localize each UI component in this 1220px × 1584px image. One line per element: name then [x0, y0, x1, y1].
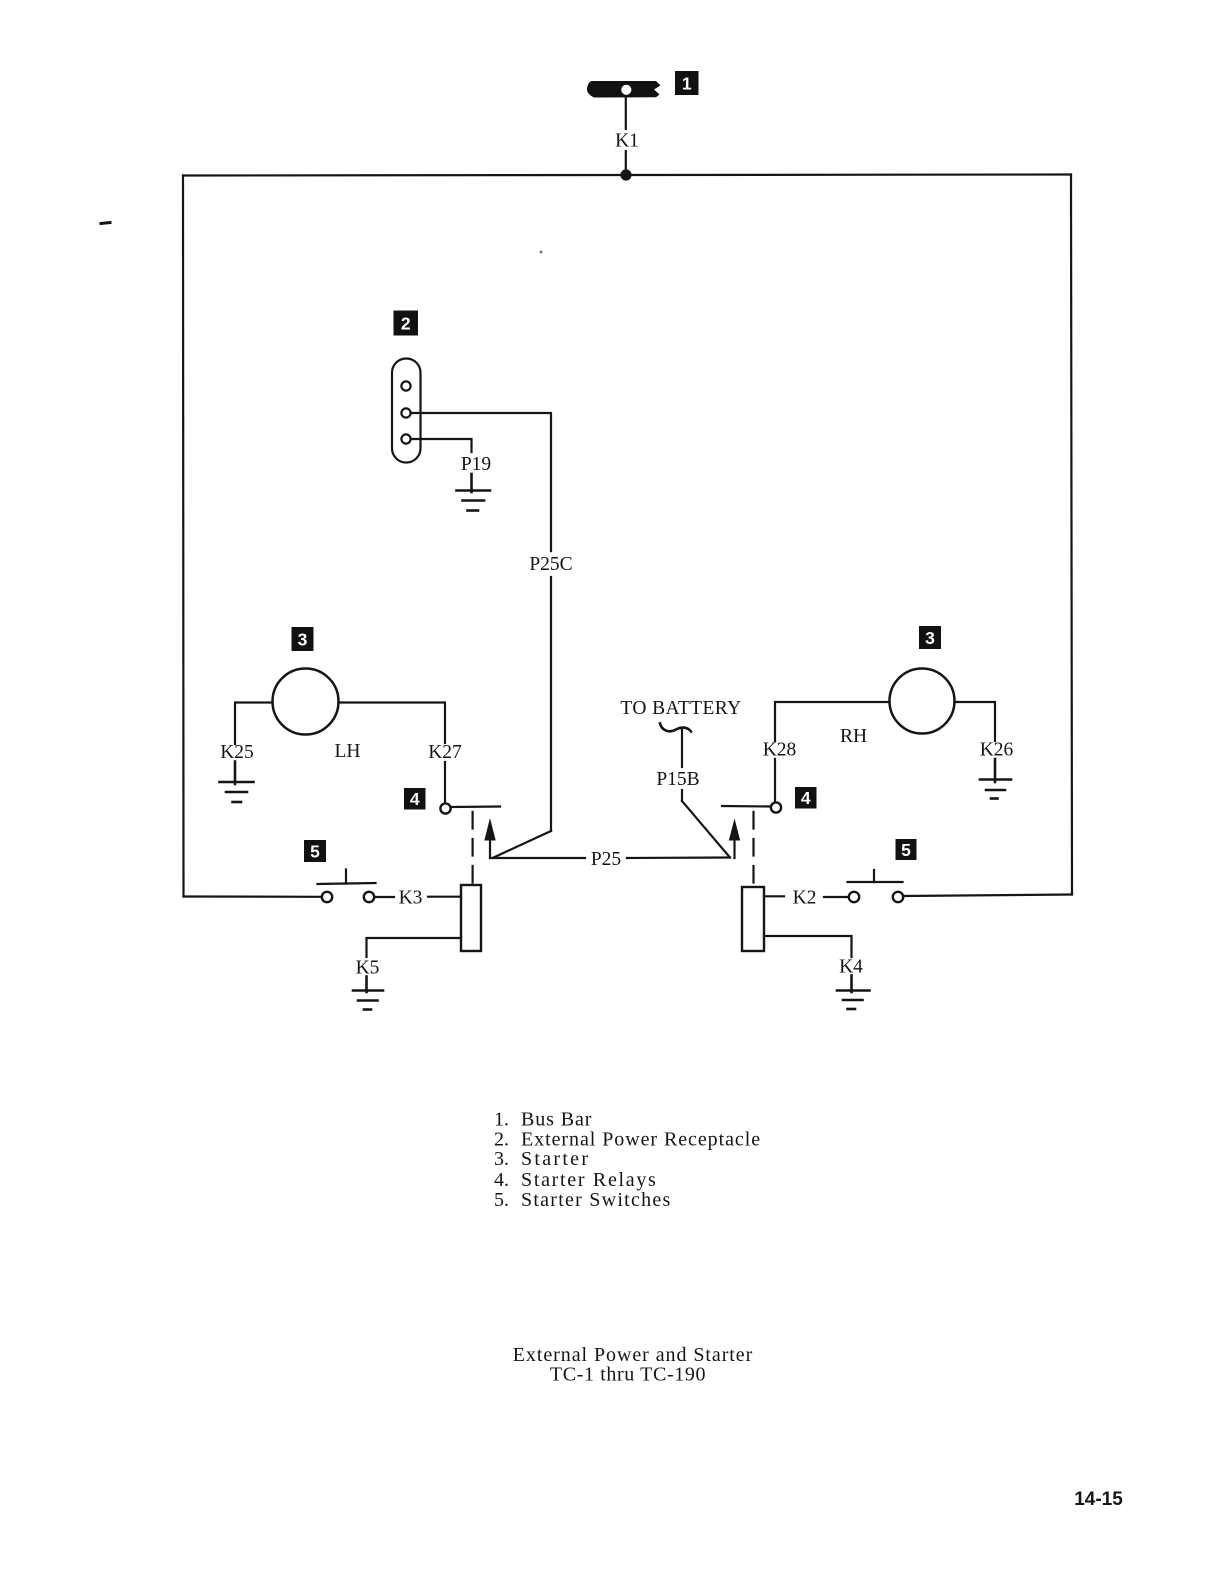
wire relay LH to K5 — [367, 938, 462, 957]
wire bottom-left to switch — [184, 895, 323, 897]
starter RH — [890, 669, 955, 734]
svg-text:P25: P25 — [591, 849, 621, 870]
svg-text:K2: K2 — [793, 888, 817, 909]
pushbutton RH — [848, 870, 903, 882]
svg-text:K27: K27 — [428, 742, 462, 763]
ground K26 — [980, 759, 1011, 799]
relay box LH — [461, 885, 481, 951]
bus bar terminal hole — [621, 85, 631, 95]
svg-text:4: 4 — [801, 788, 811, 808]
wire P25C diagonal to P25 — [494, 831, 552, 858]
svg-text:Starter Relays: Starter Relays — [521, 1169, 658, 1191]
svg-text:4: 4 — [410, 789, 420, 809]
junction dot K1/bus — [620, 169, 631, 180]
svg-text:K1: K1 — [615, 131, 639, 152]
index box 5 RH — [896, 839, 917, 860]
switch contact RH a — [849, 892, 859, 902]
pushbutton LH — [318, 870, 376, 885]
bus bar 1 — [587, 81, 661, 98]
index box 3 RH — [919, 626, 941, 649]
switch contact RH b — [893, 892, 903, 902]
wire relay box to K2 — [764, 895, 784, 897]
relay coil link LH (dashed) — [472, 812, 474, 884]
external power receptacle body — [392, 359, 421, 463]
svg-text:3: 3 — [925, 628, 935, 648]
index box 1 — [675, 71, 699, 95]
wire K1 upper — [625, 98, 627, 129]
wire K3 to relay box — [428, 896, 461, 898]
svg-text:3.: 3. — [494, 1148, 509, 1170]
wire bus right — [1071, 175, 1072, 895]
svg-text:Starter: Starter — [521, 1148, 590, 1170]
switch contact LH a — [322, 892, 332, 902]
svg-text:1.: 1. — [494, 1109, 509, 1131]
wire starter LH to K25 — [235, 703, 273, 745]
index box 4 RH — [795, 787, 817, 809]
wire K1 lower — [625, 151, 627, 175]
wire P15B lower — [681, 790, 683, 801]
wire switch to K3 — [375, 896, 394, 898]
relay contact circle LH — [440, 803, 450, 813]
wire bus top — [183, 175, 1071, 176]
svg-text:2.: 2. — [494, 1128, 509, 1150]
arrow P25 left — [484, 818, 495, 858]
svg-text:5.: 5. — [494, 1189, 509, 1211]
svg-text:Bus Bar: Bus Bar — [521, 1109, 592, 1131]
wire P25C lower — [550, 577, 552, 831]
wire K28 lower — [774, 759, 776, 802]
ground K5 — [353, 977, 383, 1010]
svg-text:K28: K28 — [763, 740, 797, 761]
svg-text:K25: K25 — [220, 742, 254, 763]
wire receptacle middle pin to P25C — [411, 413, 551, 551]
switch contact LH b — [364, 892, 374, 902]
wire P15B diagonal — [682, 801, 730, 858]
index box 2 — [394, 311, 419, 336]
svg-text:4.: 4. — [494, 1169, 509, 1191]
ground P19 — [457, 474, 491, 511]
svg-text:2: 2 — [401, 314, 411, 334]
wire K27 lower — [444, 762, 446, 803]
wire relay RH to K4 — [764, 936, 852, 957]
scan speck — [540, 251, 543, 254]
legend list — [494, 1109, 761, 1212]
wire bus left — [182, 176, 185, 897]
relay coil link RH (dashed) — [752, 812, 754, 886]
index box 4 LH — [404, 788, 426, 810]
svg-text:Starter Switches: Starter Switches — [521, 1189, 672, 1211]
ground K4 — [837, 976, 870, 1010]
wire starter RH to K26 — [955, 702, 996, 741]
index box 5 LH — [304, 840, 326, 862]
relay arm LH — [451, 805, 500, 808]
svg-text:TO BATTERY: TO BATTERY — [620, 698, 741, 719]
svg-text:1: 1 — [682, 73, 692, 93]
receptacle pin bottom — [401, 434, 410, 443]
wire starter RH to K28 upper — [775, 702, 890, 741]
svg-text:External Power Receptacle: External Power Receptacle — [521, 1128, 761, 1150]
wire bottom-right to switch — [903, 895, 1072, 897]
relay arm RH — [722, 805, 771, 808]
wire P25 left segment — [490, 857, 585, 859]
svg-text:LH: LH — [335, 741, 361, 762]
svg-text:14-15: 14-15 — [1074, 1489, 1123, 1510]
svg-text:5: 5 — [901, 840, 911, 860]
relay contact circle RH — [771, 802, 781, 812]
wire P15B upper — [681, 729, 683, 767]
svg-text:3: 3 — [298, 629, 308, 649]
svg-text:TC-1 thru TC-190: TC-1 thru TC-190 — [550, 1364, 706, 1386]
svg-text:P19: P19 — [461, 454, 491, 475]
svg-text:5: 5 — [310, 841, 320, 861]
receptacle pin top — [401, 381, 410, 390]
starter LH — [273, 669, 339, 735]
relay box RH — [742, 887, 764, 951]
arrow P25 right — [729, 819, 740, 859]
wire K2 to switch — [824, 896, 849, 898]
wire P25 right segment — [627, 856, 730, 859]
svg-text:K3: K3 — [399, 888, 423, 909]
wire receptacle bottom pin to P19 — [411, 439, 472, 452]
ground K25 — [220, 762, 254, 803]
svg-text:RH: RH — [840, 726, 867, 747]
wire starter LH to K27 upper — [339, 703, 446, 744]
svg-text:P15B: P15B — [656, 769, 699, 790]
index box 3 LH — [292, 627, 314, 651]
battery wire break squiggle — [660, 724, 691, 732]
svg-text:K26: K26 — [980, 740, 1014, 761]
receptacle pin middle — [401, 408, 410, 417]
stray scan mark — [101, 223, 110, 224]
svg-text:P25C: P25C — [529, 554, 572, 575]
